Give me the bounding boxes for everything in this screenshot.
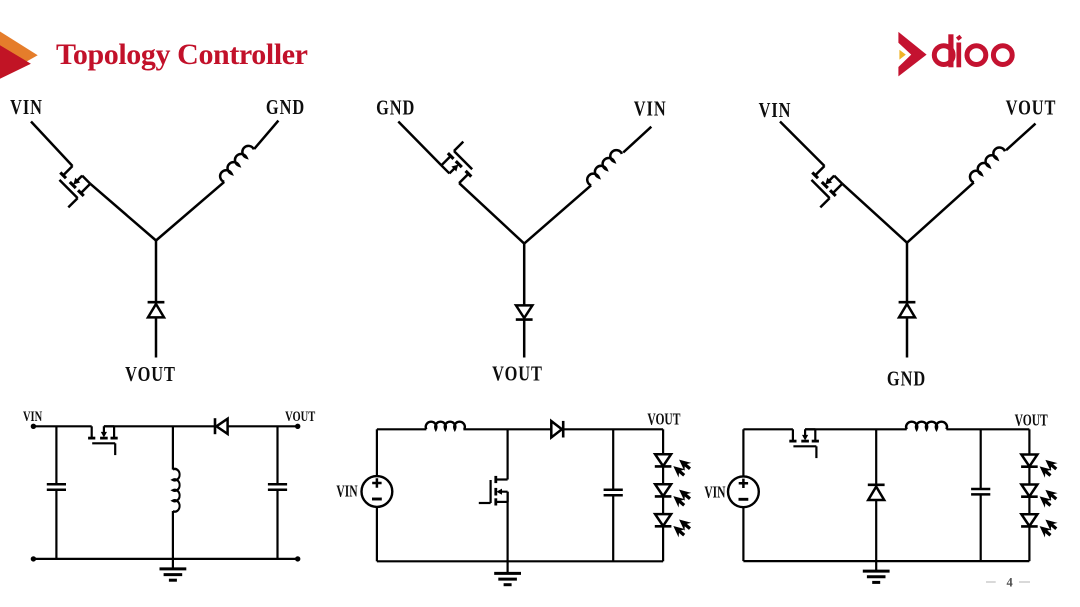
Y1 wire inductor to GND [254,121,278,149]
C2 led branch upper [662,429,664,454]
svg-text:GND: GND [887,368,926,391]
C2 LED1 [655,454,694,479]
C3 voltage source VIN [728,476,759,507]
C2 LED2 [655,484,694,509]
Y1 wire diode to VOUT [155,317,158,357]
C3 left branch upper [742,429,744,475]
title: Topology Controller [56,38,308,72]
Y2 wire mosfet drain to node A2 [459,183,524,244]
C2 diode D5 (pointing right) [551,421,563,438]
labels for Y diagrams [10,96,1056,391]
C1 node dot VOUT [295,424,300,429]
C3 freewheel diode D6 [868,485,885,500]
Y2 inductor L2 [585,148,622,186]
Y2 wire GND to mosfet source [398,122,441,166]
Y2 wire diode to VOUT [523,320,526,358]
C1 input capacitor [47,484,66,489]
C1 ground [160,559,187,580]
C2 LED3 [655,514,694,539]
page number 4 [986,581,1030,583]
C3 bottom wire [743,560,1029,562]
svg-text:4: 4 [1006,575,1013,589]
Y1 diode D1 [148,302,165,317]
C3 cap branch lower [980,494,982,561]
dioo logo chevron [898,32,926,77]
C3 led branch lower [1028,527,1030,561]
dioo logo text o2 [993,46,1012,65]
svg-text:GND: GND [266,96,305,119]
Y2 wire node to inductor [524,185,591,243]
C1 node dot VIN [31,424,36,429]
C1 top wire diode to VOUT node [228,425,298,427]
C1 bottom wire [33,558,297,560]
C3 top wire mosfet to inductor [805,428,907,430]
C1 output capacitor [268,484,287,489]
corner logo orange triangle [0,32,38,77]
Y1 wire node down to diode [155,241,158,303]
C3 led branch upper [1028,429,1030,454]
C1 middle branch wire lower [172,511,174,559]
svg-text:VIN: VIN [759,99,792,122]
C2 inductor L5 [426,422,465,430]
svg-text:VIN: VIN [704,484,726,503]
C2 cap branch lower [612,495,614,561]
C1 middle branch wire upper [172,426,174,469]
C2 left branch upper [376,429,378,475]
C3 mosfet Q6 [789,429,819,458]
C1 top wire VIN node to mosfet [33,425,91,427]
Y3 wire mosfet source to node A3 [842,184,907,243]
Y3 wire node to inductor [907,182,974,242]
C1 diode D4 (pointing left) [215,418,228,434]
svg-text:VIN: VIN [336,482,358,501]
svg-text:VOUT: VOUT [1006,97,1057,120]
dioo logo text o1 [967,46,986,65]
Y3 wire node down to diode [906,243,909,302]
svg-text:VOUT: VOUT [647,410,680,429]
C2 top wire corner to inductor [377,428,426,430]
C2 bottom wire [377,560,663,562]
Y3 wire inductor to VOUT [1006,124,1035,151]
C3 led branch mid1 [1028,467,1030,485]
C2 top wire diode to corner [563,428,663,430]
C2 ground [494,563,521,584]
C3 LED2 [1021,485,1060,510]
C3 diode branch lower [875,500,877,561]
Y3 wire diode to GND label [906,317,909,357]
Y1 mosfet Q1 [47,163,93,209]
C3 top wire inductor to corner [946,428,1029,430]
C1 mosfet Q4 [88,426,118,455]
dioo logo yellow triangle [899,50,905,60]
C3 top wire corner to mosfet [743,428,793,430]
C2 top wire inductor to diode [463,428,551,430]
C2 mosfet Q5 (vertical) [479,476,508,506]
C1 right branch wire lower [276,490,278,559]
C1 node dot bottom right [295,556,300,561]
C3 inductor L6 [906,422,947,430]
svg-text:VOUT: VOUT [285,407,315,424]
C2 led branch lower [662,527,664,562]
C3 left branch lower [742,508,744,561]
C2 left branch lower [376,508,378,562]
C3 LED3 [1021,514,1060,539]
Y3 diode D3 [899,302,916,317]
Y1 wire mosfet source to node A1 [90,184,156,241]
C2 cap branch upper [612,429,614,490]
Y1 wire node to inductor [156,182,224,241]
C3 output capacitor [971,489,990,494]
svg-text:VIN: VIN [634,98,667,121]
C3 cap branch upper [980,429,982,489]
C1 node dot bottom left [31,556,36,561]
C2 led branch mid2 [662,497,664,514]
C1 left branch wire upper [55,426,57,484]
Y2 diode D2 [516,305,533,319]
C3 led branch mid2 [1028,497,1030,514]
Y1 wire VIN to mosfet drain [31,122,73,167]
svg-text:GND: GND [376,97,415,120]
svg-text:VIN: VIN [23,407,43,424]
C2 led branch mid1 [662,467,664,485]
svg-text:VOUT: VOUT [125,363,176,386]
C1 right branch wire upper [276,426,278,484]
dioo logo text d [934,34,1012,67]
C2 mosfet source wire [507,492,509,564]
Y3 mosfet Q3 [799,163,845,209]
corner logo red triangle [0,45,31,79]
C2 mosfet drain wire [507,429,509,479]
C1 top wire mosfet to diode [104,425,215,427]
C1 left branch wire lower [55,490,57,559]
svg-text:VOUT: VOUT [492,363,543,386]
Y1 inductor L1 [218,143,255,182]
C2 voltage source VIN [362,476,393,507]
C3 diode branch upper [875,429,877,484]
Y2 wire node down to diode [523,244,526,306]
dioo logo text i [956,43,961,68]
C2 output capacitor [604,490,623,495]
C3 ground [863,561,890,582]
Y2 wire inductor to VIN [623,127,651,153]
Y2 mosfet Q2 (mirrored) [439,140,485,186]
C1 inductor L4 (vertical, bumps left) [173,469,180,512]
Y3 wire VIN to mosfet drain [780,122,825,167]
svg-text:VOUT: VOUT [1015,411,1048,430]
svg-text:VIN: VIN [10,96,43,119]
Y3 inductor L3 [968,145,1006,183]
C3 LED1 [1021,455,1060,480]
